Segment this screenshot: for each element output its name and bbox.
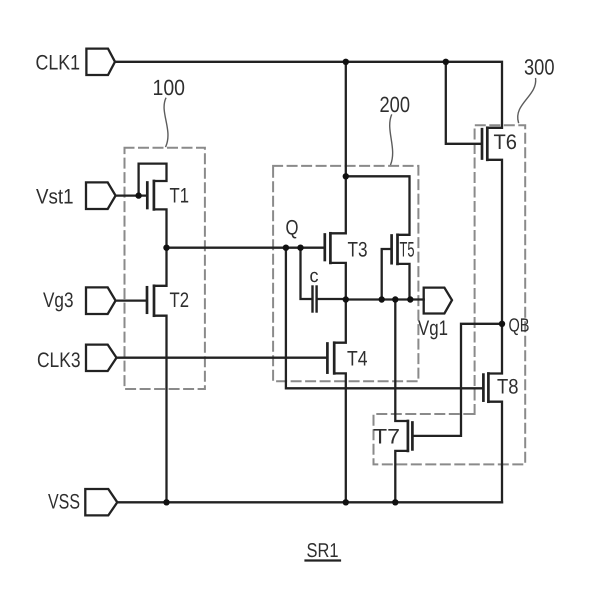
wire VSS rail xyxy=(117,501,502,503)
port VSS xyxy=(85,489,117,515)
svg-text:T3: T3 xyxy=(348,239,368,262)
wire node to T2 drain xyxy=(154,248,167,286)
transistor T6 xyxy=(482,128,487,160)
dashed block 300 xyxy=(374,125,526,464)
wire Vst1 to T1 gate xyxy=(116,194,147,196)
wire T4 source to VSS xyxy=(334,373,346,502)
junction dot CLK1 at T3 xyxy=(343,59,349,65)
svg-text:200: 200 xyxy=(380,92,411,117)
svg-text:T7: T7 xyxy=(373,426,400,449)
wire Q rail xyxy=(167,247,324,249)
svg-text:QB: QB xyxy=(509,316,530,337)
port CLK1 xyxy=(86,49,115,75)
transistor T7 (mirrored) xyxy=(408,421,413,451)
junction dot VSS at T7 xyxy=(392,499,398,505)
wire T5 source to Vg1 node xyxy=(398,264,410,300)
junction dot Vst1 gate xyxy=(135,192,141,198)
wire T2 source to VSS xyxy=(154,316,167,503)
wire Vg1 node to T7 drain xyxy=(395,300,408,422)
junction dot Vg1 node at T3 source xyxy=(343,296,349,302)
junction dot T5 source xyxy=(407,296,413,302)
wire CLK1 to T6 gate xyxy=(446,62,481,144)
svg-text:T8: T8 xyxy=(497,376,519,399)
wire T1 source to node xyxy=(154,209,167,247)
svg-text:CLK3: CLK3 xyxy=(37,349,81,372)
wire CLK1 bus to T6 drain xyxy=(115,62,502,128)
leader squiggle 200 xyxy=(390,115,393,164)
wire T7 source to VSS xyxy=(395,451,408,502)
svg-text:Vg3: Vg3 xyxy=(43,289,74,312)
junction dot T5 gate xyxy=(379,296,385,302)
junction dot T7 branch xyxy=(392,296,398,302)
port Vst1 xyxy=(86,182,116,209)
wire Q to T8 gate xyxy=(286,248,482,389)
junction dot T1/T2 node xyxy=(163,245,169,251)
port CLK3 xyxy=(86,345,117,371)
transistor T1 xyxy=(147,181,154,209)
dashed block 100 xyxy=(125,148,205,389)
svg-text:VSS: VSS xyxy=(48,491,80,514)
svg-text:Vg1: Vg1 xyxy=(418,317,448,340)
svg-text:c: c xyxy=(310,266,319,287)
svg-text:CLK1: CLK1 xyxy=(36,52,81,75)
transistor T8 xyxy=(483,374,488,402)
wire CLK3 to T4 gate xyxy=(117,357,327,359)
svg-text:SR1: SR1 xyxy=(307,540,339,562)
wire Q to capacitor xyxy=(301,248,312,299)
svg-text:T1: T1 xyxy=(170,185,190,208)
wire T8 source to VSS xyxy=(488,402,502,503)
transistor T2 xyxy=(147,286,154,316)
transistor T3 xyxy=(325,233,331,263)
junction dot Q node xyxy=(283,245,289,251)
wire branch to T5 drain xyxy=(346,176,410,235)
leader squiggle 100 xyxy=(164,98,168,146)
junction dot T3 drain branch xyxy=(343,173,349,179)
underline SR1 xyxy=(306,559,341,561)
wire T6 source to T8 drain (QB rail) xyxy=(487,160,502,374)
svg-text:Q: Q xyxy=(286,217,299,240)
leader squiggle 300 xyxy=(518,79,536,123)
svg-text:300: 300 xyxy=(524,55,555,80)
junction dot CLK1 at T6 gate xyxy=(443,59,449,65)
wire T1 diode connection xyxy=(139,164,167,196)
transistor T5 xyxy=(392,235,398,264)
svg-text:T2: T2 xyxy=(170,289,190,312)
wire T3 source to T4 drain xyxy=(330,263,345,343)
wire Vg1 node rail xyxy=(346,298,424,300)
wire Vg3 to T2 gate xyxy=(116,299,146,301)
svg-text:T4: T4 xyxy=(347,348,368,371)
svg-text:100: 100 xyxy=(153,75,186,100)
port Vg3 xyxy=(86,287,116,314)
svg-text:T5: T5 xyxy=(400,239,415,262)
capacitor C xyxy=(313,287,317,312)
port Vg1 xyxy=(424,288,452,314)
wire CLK1 down to T3 drain xyxy=(330,62,345,234)
junction dot Q capacitor branch xyxy=(297,245,303,251)
dashed block 200 xyxy=(273,166,418,381)
wire QB to T7 gate xyxy=(414,324,503,436)
svg-text:T6: T6 xyxy=(494,131,518,154)
junction dot VSS at T4 xyxy=(343,499,349,505)
transistor T4 xyxy=(327,343,334,374)
wire capacitor to Vg1 node xyxy=(318,298,346,300)
junction dot QB node xyxy=(499,321,505,327)
svg-text:Vst1: Vst1 xyxy=(36,186,74,209)
junction dot VSS at T2 xyxy=(163,499,169,505)
wire T5 gate to Vg1 node xyxy=(382,249,391,300)
